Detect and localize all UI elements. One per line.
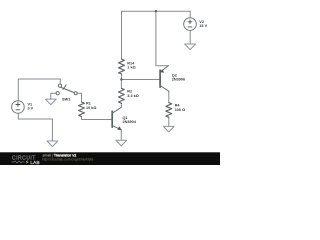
ground G3 (Q1 emitter) [116, 140, 127, 146]
wire V2 bottom to ground G4 [189, 30, 191, 44]
CircuitLab logo wordmark [12, 156, 36, 162]
wire switch left throw to ground G1 [51, 93, 56, 99]
svg-text:R2: R2 [127, 89, 132, 93]
svg-text:3.3 kΩ: 3.3 kΩ [127, 94, 139, 98]
transistor Q1 (NPN 2N3904) [112, 107, 121, 130]
wire Q2 collector to R4 top [168, 91, 170, 102]
ground G4 (V2) [185, 44, 196, 50]
wire V1 top vertical [18, 79, 60, 101]
resistor R14 body [119, 59, 125, 74]
resistor R4 body [166, 103, 172, 118]
svg-text:100 Ω: 100 Ω [175, 108, 185, 112]
svg-text:R4: R4 [175, 103, 181, 107]
switch SW1 [56, 84, 77, 95]
wire V1 bottom to ground G2 [18, 113, 52, 141]
label R1 [86, 101, 96, 110]
voltage source V1 [12, 101, 25, 114]
label Q2 [172, 74, 185, 82]
svg-text:2N3904: 2N3904 [123, 120, 137, 124]
ground G5 (R4) [163, 126, 174, 132]
wire node to Q2 base [121, 79, 159, 81]
node junction dot at R14/R2/Q2-base [120, 78, 122, 80]
svg-text:LAB: LAB [30, 160, 40, 165]
resistor R1 body [79, 102, 85, 117]
ground G2 (V1) [47, 141, 58, 147]
wire R1 bottom to Q1 base [82, 117, 112, 120]
Q1 emitter arrowhead [117, 126, 121, 130]
svg-text:http://circuitlab.com/c/cgnbhi: http://circuitlab.com/c/cgnbhiu43jk6 [42, 157, 93, 161]
logo squiggle wire [12, 161, 25, 163]
svg-text:1 kΩ: 1 kΩ [127, 66, 135, 70]
wire R4 bottom to ground G5 [168, 117, 170, 126]
wire R14 bottom to node [121, 74, 123, 80]
resistor R2 body [119, 88, 125, 103]
svg-text:SW1: SW1 [62, 97, 70, 101]
label SW1 [62, 97, 70, 101]
svg-text:10 kΩ: 10 kΩ [86, 106, 96, 110]
label Q1 [123, 116, 137, 124]
label R2 [127, 89, 139, 98]
svg-text:15 V: 15 V [199, 24, 207, 28]
wire top rail [122, 11, 191, 59]
voltage source V2 [184, 18, 197, 31]
wire node to R2 top [120, 80, 122, 89]
wire R2 bottom to Q1 collector [120, 103, 122, 107]
wire Q1 emitter to ground G3 [120, 130, 122, 140]
footer bar [0, 152, 220, 165]
label R4 [175, 103, 185, 112]
transistor Q2 (PNP 2N3906) [160, 66, 169, 92]
svg-text:2N3906: 2N3906 [172, 77, 185, 81]
label V1 [28, 103, 34, 111]
svg-text:3 V: 3 V [28, 106, 34, 110]
svg-text:R1: R1 [86, 101, 91, 105]
logo lightning bolt [26, 160, 29, 165]
label V2 [199, 20, 207, 28]
wire switch right throw to R1 top [77, 93, 81, 102]
wire rail junction to Q2 emitter [156, 11, 169, 65]
logo LAB text [30, 160, 40, 165]
label R14 [127, 61, 135, 69]
Q2 emitter arrowhead [160, 69, 164, 72]
node junction dot on top rail [155, 10, 157, 12]
ground G1 (switch) [45, 99, 56, 105]
